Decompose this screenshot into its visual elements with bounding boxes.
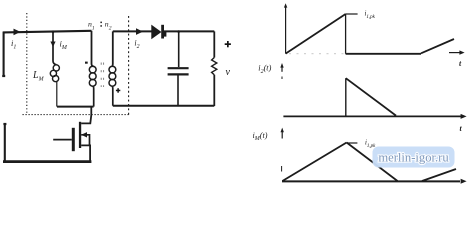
svg-text:t: t (460, 124, 463, 133)
waveform iM next rise (422, 169, 456, 181)
diode D1 (152, 26, 161, 39)
waveform iM fall (347, 143, 398, 182)
waveform i1 drop (345, 14, 347, 54)
wire secondary top (113, 30, 152, 32)
axis horizontal p3 (282, 180, 460, 182)
waveform iM ramp (282, 143, 346, 182)
watermark merlin-igor.ru (373, 147, 455, 168)
waveform i2 fall (346, 78, 396, 115)
arrow iM down (50, 42, 55, 48)
MOSFET source (81, 145, 90, 161)
svg-text:n1: n1 (88, 20, 95, 32)
node cap junction (177, 30, 180, 33)
svg-text:v: v (226, 67, 231, 78)
wire top primary (3, 31, 92, 33)
resistor zigzag (212, 58, 217, 75)
axis arrow p1 (449, 52, 462, 54)
dashed box left edge (26, 13, 28, 115)
wire left vertical upper (3, 32, 5, 77)
MOSFET body lead + arrow (81, 135, 89, 146)
wire left vertical lower (4, 123, 6, 162)
wire drain vertical (81, 107, 91, 124)
MOSFET gate bar (72, 128, 75, 151)
dashed box right edge (128, 16, 130, 115)
svg-text:n2: n2 (105, 20, 112, 32)
axis horizontal p2 (283, 115, 461, 117)
svg-text:i2(t): i2(t) (258, 64, 271, 75)
terminal upper (2, 75, 5, 77)
wire diode to corner (164, 30, 214, 32)
svg-text:t: t (459, 59, 462, 68)
MOSFET Q1 gate lead (53, 139, 72, 141)
polarity dot primary (85, 62, 88, 64)
waveform i2 rise (345, 78, 347, 116)
MOSFET channel bar (79, 122, 81, 148)
svg-text:iM: iM (60, 39, 68, 52)
svg-text:merlin-igor.ru: merlin-igor.ru (378, 150, 449, 164)
capacitor C (178, 31, 180, 67)
wire LM bottom lead (56, 82, 58, 107)
transformer primary winding (92, 31, 94, 67)
axis vertical p2 (281, 66, 283, 72)
wire secondary bottom (113, 105, 215, 107)
polarity plus secondary (116, 90, 120, 92)
arrow i1 on top wire (14, 29, 21, 36)
svg-text:LM: LM (32, 70, 45, 83)
wire iM branch (53, 32, 57, 65)
transformer secondary winding (112, 31, 113, 66)
label + output (225, 43, 231, 45)
svg-text:i1,pk: i1,pk (365, 140, 376, 149)
svg-text:iM(t): iM(t) (253, 131, 268, 142)
axis vertical p1 (285, 7, 287, 54)
leader peak p1 (346, 13, 358, 15)
wire right vertical + resistor R (213, 31, 215, 57)
waveform i1 zero (346, 53, 421, 55)
wire LM to drain (57, 106, 94, 108)
inductor LM (50, 65, 59, 82)
arrow i2 (136, 28, 143, 35)
transformer core (101, 63, 103, 88)
svg-text:i2: i2 (134, 39, 139, 50)
svg-text:i1: i1 (11, 38, 16, 51)
node junction iM (52, 30, 55, 33)
leader peak p3 (347, 142, 358, 144)
axis vertical p3 (281, 132, 283, 139)
waveform i1 next rise (421, 39, 454, 53)
dashed box bottom edge (23, 114, 129, 116)
waveform i1 ramp (286, 14, 346, 54)
terminal lower (3, 123, 6, 125)
svg-text:i1,pk: i1,pk (365, 11, 376, 20)
axis horizontal p1 (faint under ramp) (289, 53, 344, 55)
wire bottom (3, 160, 91, 163)
